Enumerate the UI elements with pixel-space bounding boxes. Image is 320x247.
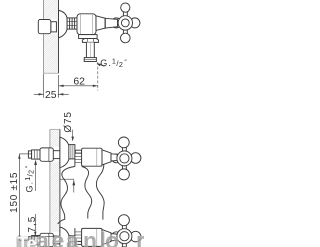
column body left wavy outline (front view) [58,167,75,224]
handle far lobe (side view) [111,18,121,28]
spout outlet end (side view) [84,58,96,62]
svg-text:25: 25 [45,90,57,101]
diameter 75 leader (front view) [71,130,74,142]
valve body (side view) [77,14,96,35]
inlet pipe stub [28,151,31,158]
svg-text:G.1/2″: G.1/2″ [100,57,128,70]
dimension 62 [59,75,98,90]
svg-text:G.1/2″: G.1/2″ [23,165,36,193]
body bottom flange (side view) [79,35,98,39]
dimension text 25 [44,90,58,99]
wall section hatched strip (side view) [38,0,59,73]
collar [111,153,117,162]
spout pipe (side view) [86,42,94,57]
svg-text:62: 62 [73,76,85,87]
escutcheon flange (side view) [59,10,68,38]
valve body [82,148,102,166]
barrel neck with rings [75,153,82,166]
dimension 7,5 [31,214,58,236]
centerline extension from spout (side view) [97,62,99,91]
column body middle wavy outline (front view) [82,167,92,219]
svg-text:a: a [66,228,79,247]
handle stems (side view) [123,10,134,37]
spout hex nut (side view) [82,39,98,43]
escutcheon [60,137,69,167]
svg-text:r: r [136,228,144,247]
far lobe [112,154,121,163]
union hex nut [32,150,40,159]
upper unit of front view [28,137,141,180]
svg-text:Ø75: Ø75 [63,111,74,132]
watermark strip [17,228,146,247]
G.1/2 leader (front view) [60,179,75,192]
svg-text:150 ±15: 150 ±15 [9,172,20,213]
G.1/2 leader arrow (side view) [97,63,105,66]
dimension 25 (wall thickness) [34,74,69,98]
svg-text:e: e [52,228,65,247]
svg-text:o: o [105,228,119,247]
knurled ring [69,145,75,159]
handle lobes [118,137,141,180]
barrel right wavy outline (front view) [96,164,104,219]
handle hub [117,151,132,166]
bonnet cone (side view) [96,16,105,31]
stems [122,145,134,173]
svg-text:Te: Te [17,234,36,247]
barrel top cap [75,150,81,153]
knurled nut (side view) [67,18,77,29]
bonnet cone [102,150,111,165]
handle hub (side view) [118,16,132,30]
dimension 150 +/-15 [18,154,31,241]
eccentric body [40,148,53,161]
cross handle lobes (side view) [121,3,140,43]
lower unit of front view (mirror of upper) [28,215,141,247]
inlet elbow fitting behind wall (side view) [38,20,56,34]
svg-text:a: a [36,228,49,247]
handle collar (side view) [105,18,117,28]
pipe through wall [53,150,60,152]
G.1/2 label leader to union nut (front view) [34,160,37,191]
wall section hatched strip (front view) [44,129,65,247]
svg-text:n: n [83,228,97,247]
